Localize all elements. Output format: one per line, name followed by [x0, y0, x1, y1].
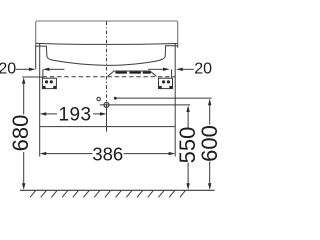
svg-text:20: 20: [194, 61, 212, 78]
svg-text:20: 20: [0, 61, 16, 78]
svg-text:386: 386: [92, 143, 123, 164]
svg-text:600: 600: [197, 125, 220, 162]
svg-text:680: 680: [8, 115, 33, 152]
svg-text:193: 193: [59, 104, 92, 125]
